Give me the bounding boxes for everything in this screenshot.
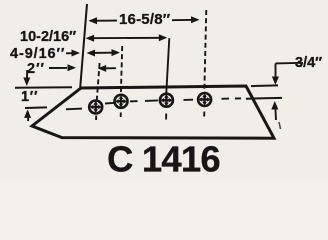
svg-text:16-5/8′′: 16-5/8′′ [119, 11, 171, 28]
dim 1 bottom extension line (hole centerline, left) [25, 106, 47, 109]
dim 16-5/8 arrow left [89, 17, 98, 24]
dim 3/4 down arrow [272, 77, 279, 86]
svg-text:4-9/16′′: 4-9/16′′ [10, 46, 65, 62]
bolt hole 2 tail dash below [120, 113, 122, 118]
svg-text:1′′: 1′′ [21, 89, 38, 105]
bolt hole 1 tail dash below [95, 116, 97, 121]
bolt hole 1 [89, 101, 102, 114]
top edge right extension [251, 84, 278, 87]
dim 10-2/16 line [88, 37, 165, 39]
dim 3/4 leader [276, 62, 304, 65]
hole centerline dashes left of hole 1 [66, 108, 82, 111]
dim 10-2/16 arrow right [159, 34, 168, 41]
centerline hole2 vertical dashed [121, 46, 122, 94]
dim 1 down arrow [26, 70, 28, 78]
blade outline (cutting edge body) [32, 86, 274, 138]
scan background [0, 0, 328, 181]
centerline dashes hole2-hole3 [130, 100, 138, 102]
centerline hole4 vertical dashed [204, 10, 206, 92]
bolt hole 4 [198, 93, 211, 106]
dimension extension line left vertical [80, 4, 87, 88]
bolt hole 2 [115, 95, 128, 108]
dim 3/4 up arrow [271, 101, 278, 110]
svg-text:2′′: 2′′ [27, 61, 45, 77]
dim 4-9/16 line [89, 52, 118, 54]
svg-text:10-2/16′′: 10-2/16′′ [20, 29, 77, 45]
dim 10-2/16 arrow left [86, 35, 95, 42]
extension line hole3 vertical solid [166, 38, 169, 93]
centerline hole1 vertical dashed [97, 63, 100, 100]
bolt hole 4 tail dash below [203, 112, 205, 117]
bolt hole 3 tail dash below [165, 114, 167, 120]
dim 4-9/16 arrow right [112, 49, 121, 56]
dim 2 leader arrow [49, 67, 67, 69]
dim 4-9/16 arrow left [87, 50, 96, 57]
bolt hole 3 [160, 94, 173, 107]
dim 1 top extension line (top edge level, left) [15, 86, 72, 89]
svg-text:3/4′′: 3/4′′ [295, 55, 323, 71]
dim 16-5/8 line left [90, 20, 117, 22]
dim 1 up arrow [24, 109, 31, 118]
centerline dash hole3-hole4 [184, 99, 194, 101]
scan speck near right slope [279, 122, 281, 129]
dim 16-5/8 arrow right [191, 16, 200, 23]
centerline dash hole1-hole2 [105, 102, 114, 105]
dim 4-9/16 leader arrow [66, 52, 72, 54]
dim 16-5/8 line right [172, 19, 197, 21]
dim 2 arrow right-outside pointing left [104, 67, 116, 69]
centerline dashes right of hole4 [222, 98, 230, 100]
centerline right solid extension [246, 97, 282, 100]
svg-text:C 1416: C 1416 [107, 139, 220, 180]
